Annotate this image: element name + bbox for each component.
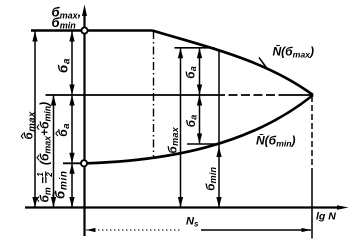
label sigma-a (middle upper, rotated) <box>186 66 199 79</box>
top horizontal line sigma-max level <box>31 29 153 32</box>
svg-text:Ns: Ns <box>186 216 199 229</box>
section line x=218.5 with sigma-min dimension <box>218 50 220 208</box>
lower horizontal + curve N(sigma-min) <box>87 95 313 163</box>
svg-text:N̄(бmin): N̄(бmin) <box>256 134 296 149</box>
dimension line stack x=72 : sigma-a / sigma-hat-a / sigma-hat-min <box>71 31 73 208</box>
x-axis arrowhead <box>337 205 349 210</box>
center line sigma-m (solid part) <box>46 94 217 96</box>
extension cap upper y=48.3 <box>175 47 215 49</box>
label sigma-hat-max (rotated, left) <box>21 111 37 139</box>
dimension line sigma-max x=179 <box>180 48 182 208</box>
svg-text:бa: бa <box>186 115 199 128</box>
Ns dimension line y=230 <box>86 229 181 231</box>
dimension line sigma-hat-max x=35 <box>34 31 36 208</box>
svg-text:бa: бa <box>56 58 73 73</box>
right boundary line x=312 (solid lower part) <box>311 170 313 239</box>
x-axis (abscissa line) <box>25 206 341 208</box>
svg-text:бmin: бmin <box>206 166 219 190</box>
label sigma-max (middle, rotated) <box>168 126 181 153</box>
label sigma-hat-a (rotated, left) <box>56 123 72 136</box>
label formula sigma-hat-m = 1/2 (sigma-hat-max + sigma-hat-min) (rotated, left) <box>36 102 54 203</box>
center line sigma-m (dashed part to apex) <box>216 94 284 96</box>
label sigma-hat-min (rotated, left) <box>53 170 70 199</box>
right boundary line x=312 (dashed upper part) <box>311 96 313 170</box>
svg-text:1: 1 <box>36 172 45 177</box>
svg-text:бa: бa <box>186 66 199 79</box>
label sigma-a (middle lower, rotated) <box>186 115 199 128</box>
dimension line sigma-a pair x=198 <box>199 48 201 144</box>
lower level extension line left of circle <box>63 162 81 164</box>
dash-dot section line at x=153.5 <box>153 31 155 157</box>
svg-text:бm =: бm = <box>38 177 53 203</box>
dimension line sigma-hat-m x=53.5 <box>53 95 55 208</box>
svg-text:бmax: бmax <box>24 111 38 139</box>
node circle top <box>81 27 87 33</box>
svg-text:бa: бa <box>56 123 72 136</box>
leader line to N(sigma-max) label <box>259 58 267 69</box>
svg-text:lg N: lg N <box>316 211 336 223</box>
svg-text:N̄(бmax): N̄(бmax) <box>273 45 314 60</box>
node circle lower <box>81 160 87 166</box>
curve N(sigma-max) upper <box>153 31 314 96</box>
svg-text:2: 2 <box>45 172 54 178</box>
svg-text:бmin: бmin <box>53 170 70 199</box>
svg-text:(бmax+бmin): (бmax+бmin) <box>38 102 53 165</box>
axis sigma arrowhead <box>82 5 87 17</box>
axis sigma (vertical ordinate line) <box>83 14 85 236</box>
svg-text:бmax: бmax <box>168 126 181 153</box>
label sigma-a upper-left (rotated) <box>56 58 73 73</box>
label sigma-min (middle right, rotated) <box>206 166 219 190</box>
extension cap lower y=144 <box>187 143 215 145</box>
